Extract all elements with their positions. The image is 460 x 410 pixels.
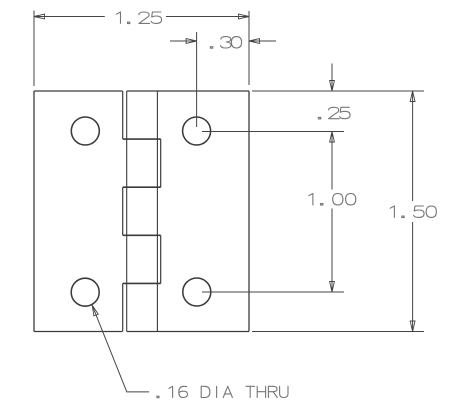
- arrowhead .30 right: [249, 39, 260, 44]
- arrowhead 1.25 right: [239, 14, 250, 19]
- knuckle segment 4 right bulge: [160, 235, 162, 283]
- dimension line 1.25 right segment: [166, 16, 249, 18]
- dimension text 1.50: [390, 206, 436, 218]
- extension line upper hole center (for .25 / 1.00): [202, 131, 344, 133]
- dimension .25 upper stem: [331, 64, 333, 92]
- leader text .16 DIA THRU: [157, 386, 288, 397]
- dimension line 1.00 upper segment: [331, 132, 333, 190]
- arrowhead 1.50 up: [410, 91, 415, 102]
- arrowhead .30 left: [186, 39, 197, 44]
- dimension line 1.25 left segment: [34, 16, 105, 18]
- barrel right line: [156, 91, 158, 332]
- knuckle segment 2 right bulge: [160, 139, 162, 187]
- dimension line .30 right stem: [249, 40, 276, 42]
- screw hole top-right .16 dia: [183, 117, 211, 145]
- dimension line 1.00 lower segment: [331, 209, 333, 293]
- dimension text .25: [318, 107, 350, 119]
- extension line left edge (for 1.25): [33, 11, 35, 87]
- arrowhead 1.00 down: [330, 282, 335, 293]
- hinge outline left edge: [33, 91, 35, 332]
- knuckle joint line 2: [123, 186, 161, 188]
- extension line lower hole center (for 1.00): [202, 291, 344, 293]
- dimension line 1.50 upper segment: [412, 91, 414, 201]
- screw hole bottom-right .16 dia: [183, 278, 211, 306]
- dimension text .30: [210, 37, 241, 49]
- hinge outline bottom edge right part: [127, 331, 249, 333]
- screw hole bottom-left .16 dia: [71, 278, 99, 306]
- knuckle joint line 1: [123, 138, 161, 140]
- dimension text 1.00: [309, 194, 356, 206]
- hinge outline bottom edge left part: [34, 331, 122, 333]
- barrel left line: [126, 91, 128, 332]
- screw hole top-left .16 dia: [71, 117, 99, 145]
- extension line right edge (for 1.25 and .30): [248, 11, 250, 85]
- extension line hole center (for .30): [196, 32, 198, 127]
- dimension line .30 left stem: [170, 40, 197, 42]
- hinge outline right edge: [248, 91, 250, 332]
- arrowhead 1.25 left: [34, 14, 45, 19]
- hinge outline top edge left part: [34, 90, 122, 92]
- extension line top edge right (for .25 and 1.50): [252, 90, 424, 92]
- leader line to bottom-left hole: [92, 305, 149, 392]
- leader arrowhead: [92, 305, 98, 316]
- arrowhead 1.00 up: [330, 132, 335, 143]
- arrowhead .25 down: [330, 81, 335, 92]
- arrowhead 1.50 down: [410, 321, 415, 332]
- knuckle segment 1 left bulge: [122, 91, 124, 139]
- dimension line 1.50 lower segment: [412, 222, 414, 332]
- knuckle joint line 3: [123, 234, 161, 236]
- knuckle segment 5 left bulge: [122, 283, 124, 331]
- knuckle segment 3 left bulge: [122, 187, 124, 235]
- dimension text 1.25: [116, 12, 161, 24]
- extension line bottom edge right (for 1.50): [252, 331, 424, 333]
- knuckle joint line 4: [123, 282, 161, 284]
- hinge outline top edge right part: [127, 90, 249, 92]
